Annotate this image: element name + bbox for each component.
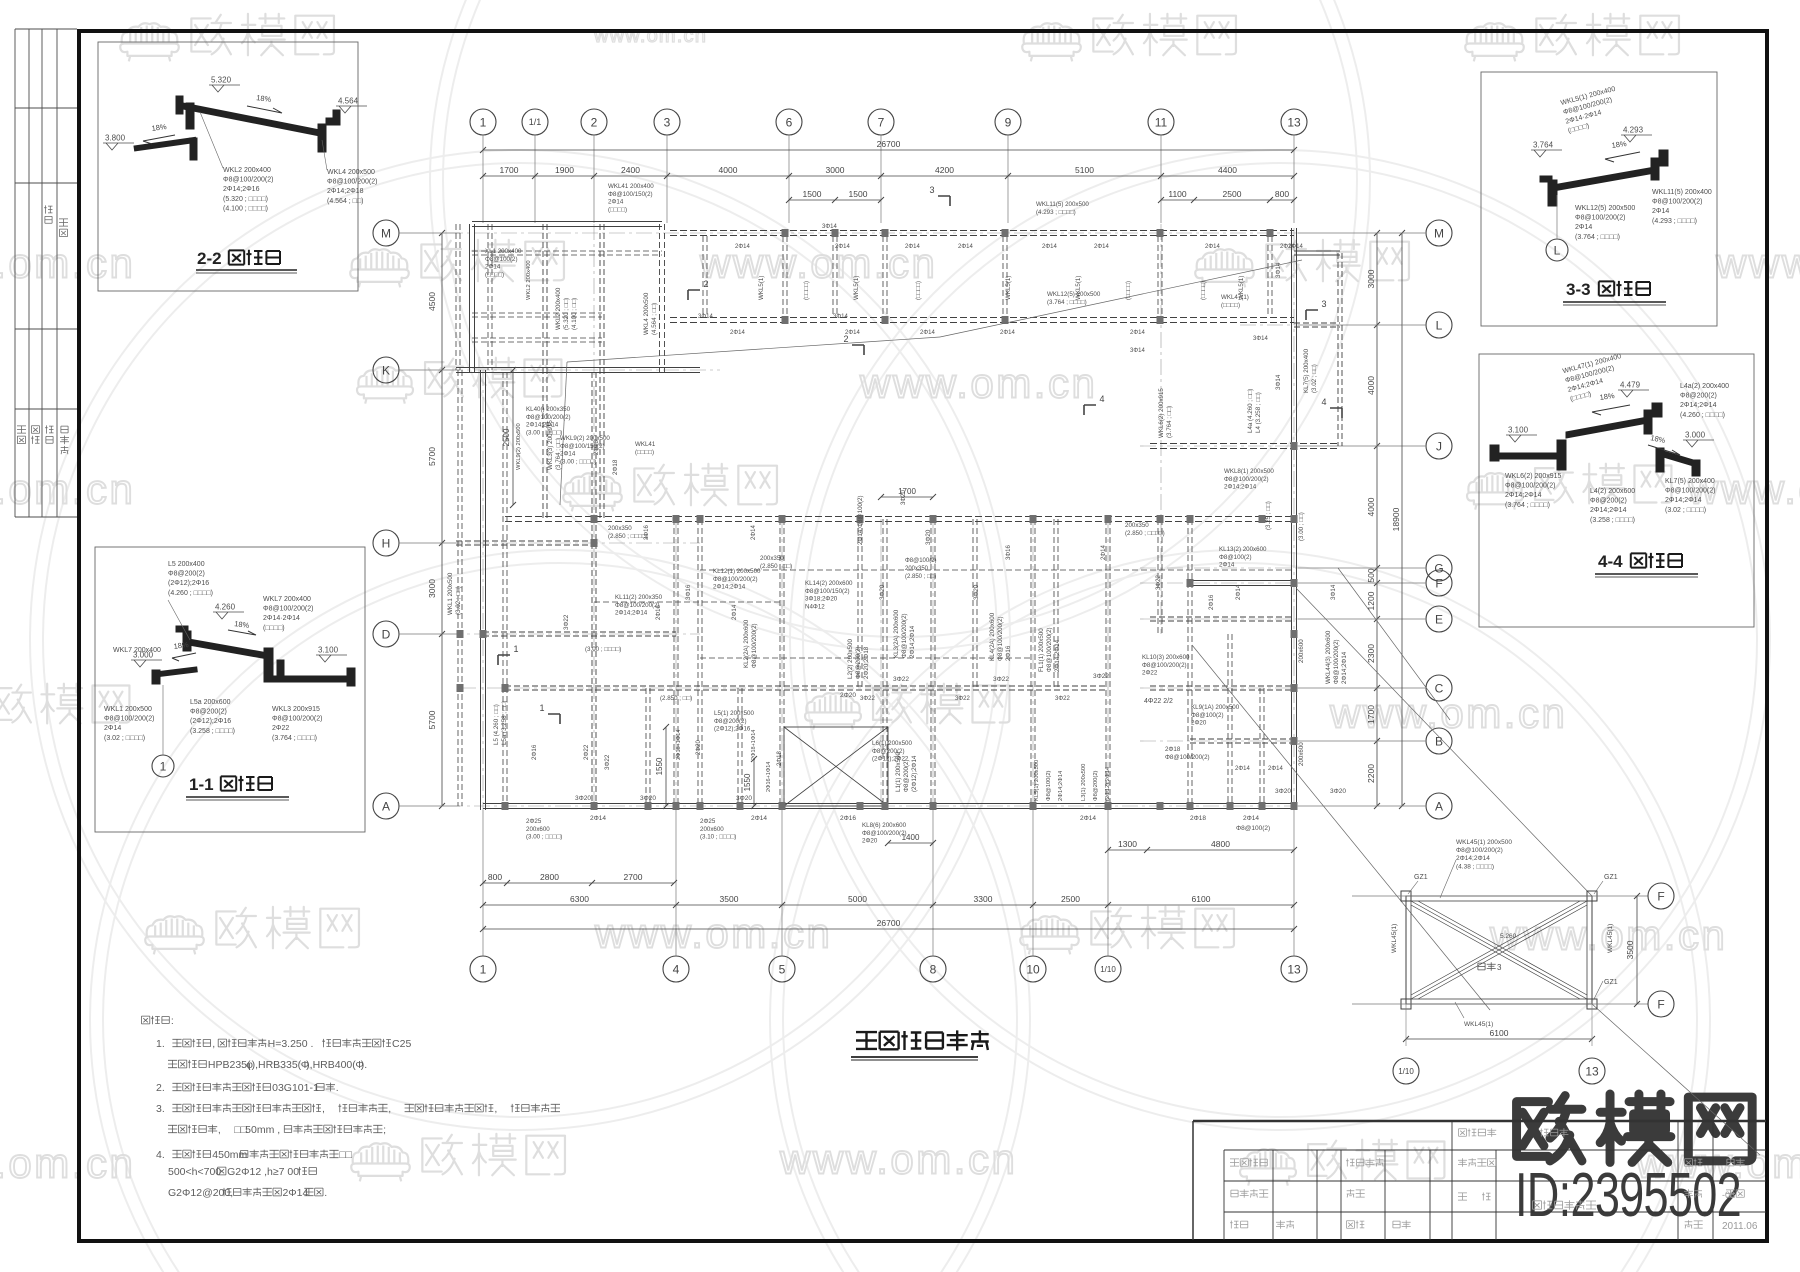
svg-text:WKL45(1): WKL45(1) xyxy=(1391,924,1398,953)
section detail 1-1 box xyxy=(95,547,365,832)
svg-text:(□□□□): (□□□□) xyxy=(635,449,654,456)
svg-text:WKL2 200x400: WKL2 200x400 xyxy=(555,287,562,330)
svg-text:200x600: 200x600 xyxy=(1298,639,1305,663)
svg-text:2Φ14;2Φ14: 2Φ14;2Φ14 xyxy=(1341,651,1348,684)
svg-text:1-1: 1-1 xyxy=(189,775,214,794)
top grid circles xyxy=(470,109,496,135)
svg-text:KL11(2) 200x350: KL11(2) 200x350 xyxy=(615,594,663,601)
svg-text:Φ8@200(2): Φ8@200(2) xyxy=(714,718,747,725)
svg-text:L6(1) 200x500: L6(1) 200x500 xyxy=(872,740,912,747)
svg-text:KL2(2A) 200x600: KL2(2A) 200x600 xyxy=(743,619,750,668)
svg-text:www.om.cn: www.om.cn xyxy=(0,466,135,513)
svg-text:(5.320 ; □□□□): (5.320 ; □□□□) xyxy=(223,196,268,203)
svg-text:□□: □□ xyxy=(339,1149,352,1161)
svg-text:Φ8@100/150(2): Φ8@100/150(2) xyxy=(608,191,653,198)
svg-text:WKL44(3) 200x600: WKL44(3) 200x600 xyxy=(1325,630,1332,684)
svg-text:L5 200x400: L5 200x400 xyxy=(168,561,205,568)
strip room labels WKL5(1) xyxy=(758,276,765,300)
svg-text:(2Φ12);2Φ14: (2Φ12);2Φ14 xyxy=(1105,766,1111,801)
annotation labels right outside xyxy=(1303,348,1318,393)
svg-text:(3.02 ; □□): (3.02 ; □□) xyxy=(455,586,462,615)
svg-text:(5.320 ; □□): (5.320 ; □□) xyxy=(563,298,570,330)
svg-text:4400: 4400 xyxy=(1218,165,1237,175)
svg-text:(2.850 ; □□□□): (2.850 ; □□□□) xyxy=(608,533,648,540)
svg-text:Φ8@100/200(2): Φ8@100/200(2) xyxy=(1505,483,1555,490)
svg-text:3Φ20: 3Φ20 xyxy=(736,795,752,802)
svg-text:3Φ22: 3Φ22 xyxy=(860,696,875,702)
svg-text:1100: 1100 xyxy=(1168,189,1187,199)
left title strip table xyxy=(15,29,77,517)
svg-text:(3.00 ; □□□□): (3.00 ; □□□□) xyxy=(585,646,621,653)
beam: west outer wall xyxy=(457,370,459,806)
svg-text:3Φ22: 3Φ22 xyxy=(563,614,570,630)
svg-text:Φ8@200(2): Φ8@200(2) xyxy=(190,709,227,716)
top dimension 26700 xyxy=(483,149,1294,151)
svg-text:Φ8@100/200(2): Φ8@100/200(2) xyxy=(1575,215,1625,222)
svg-text:H: H xyxy=(382,536,391,550)
svg-text:6300: 6300 xyxy=(570,894,589,904)
svg-text:L4(2) 200x600: L4(2) 200x600 xyxy=(1590,488,1635,495)
svg-text:WKL5(1): WKL5(1) xyxy=(1238,276,1245,300)
svg-text:Φ8@100(2): Φ8@100(2) xyxy=(1219,554,1252,561)
svg-text:A: A xyxy=(382,799,390,813)
svg-text:2Φ14: 2Φ14 xyxy=(845,330,860,336)
beam: mid horizontals xyxy=(594,601,782,603)
svg-text:200x600: 200x600 xyxy=(1298,742,1305,766)
svg-text:2Φ20: 2Φ20 xyxy=(840,692,856,699)
svg-text:(4.100 ; □□□□): (4.100 ; □□□□) xyxy=(223,205,268,212)
svg-text:3Φ20: 3Φ20 xyxy=(640,795,656,802)
svg-text:2200: 2200 xyxy=(1366,764,1376,783)
1-1 elevation markers xyxy=(213,612,244,619)
svg-text:2Φ18: 2Φ18 xyxy=(594,440,600,455)
svg-text:2Φ16+1Φ14: 2Φ16+1Φ14 xyxy=(766,762,772,792)
svg-text:4.293: 4.293 xyxy=(1623,126,1644,135)
svg-text:200x350: 200x350 xyxy=(760,555,784,562)
svg-text:(□□□□): (□□□□) xyxy=(915,281,922,300)
bottom sub dimensions 800 2800 2700 xyxy=(483,882,674,884)
svg-text:Φ8@100/200(2): Φ8@100/200(2) xyxy=(615,602,660,609)
svg-text:200x600: 200x600 xyxy=(700,826,724,833)
svg-text:1: 1 xyxy=(480,115,487,129)
svg-text:2Φ14: 2Φ14 xyxy=(608,199,624,206)
svg-text:M: M xyxy=(1434,226,1444,240)
svg-text:2Φ14: 2Φ14 xyxy=(1000,330,1015,336)
3-3 annotations xyxy=(1560,86,1624,135)
svg-text:L4a(2) 200x400: L4a(2) 200x400 xyxy=(1680,383,1729,390)
svg-text:3.764: 3.764 xyxy=(1533,141,1554,150)
svg-text:2: 2 xyxy=(591,115,598,129)
svg-text:4200: 4200 xyxy=(935,165,954,175)
svg-text:2Φ20: 2Φ20 xyxy=(696,740,702,755)
svg-text:GZ1: GZ1 xyxy=(1414,874,1428,881)
svg-text:9: 9 xyxy=(1005,115,1012,129)
svg-text:1300: 1300 xyxy=(1118,839,1137,849)
beam: B line right rooms xyxy=(1190,738,1294,740)
svg-text:4000: 4000 xyxy=(719,165,738,175)
svg-text:2Φ14: 2Φ14 xyxy=(590,815,606,822)
svg-text:4Φ22 2/2: 4Φ22 2/2 xyxy=(1144,698,1173,705)
svg-text:3300: 3300 xyxy=(974,894,993,904)
svg-text:(3.764 ; □□): (3.764 ; □□) xyxy=(1166,406,1173,438)
top sub dimensions 1100 2500 800 xyxy=(1161,199,1294,201)
svg-text:1/1: 1/1 xyxy=(529,117,542,127)
svg-text:Φ8@100(2): Φ8@100(2) xyxy=(1191,712,1224,719)
svg-text:200x350: 200x350 xyxy=(1125,522,1149,529)
beam: bottom edge A xyxy=(483,803,1294,805)
svg-text:www.om.cn: www.om.cn xyxy=(1715,240,1800,287)
svg-text:GZ1: GZ1 xyxy=(1604,874,1618,881)
svg-text:1500: 1500 xyxy=(803,189,822,199)
svg-text:2Φ14: 2Φ14 xyxy=(1288,244,1303,250)
svg-text:Φ8@100(2): Φ8@100(2) xyxy=(1046,770,1052,801)
svg-text:WKL2 200x400: WKL2 200x400 xyxy=(223,167,271,174)
svg-text:3Φ16: 3Φ16 xyxy=(685,584,692,600)
svg-text:WKL6(2) 200x915: WKL6(2) 200x915 xyxy=(1505,473,1562,480)
beam: inner left vertical xyxy=(502,372,504,806)
svg-text:(2.850 ; □□□□): (2.850 ; □□□□) xyxy=(1125,530,1165,537)
bottom dimension 26700 xyxy=(483,928,1294,930)
svg-text:4.564: 4.564 xyxy=(338,97,359,106)
beam: E line right block xyxy=(1150,616,1294,618)
3-3 slope arrow xyxy=(1605,152,1640,162)
svg-text:3.000: 3.000 xyxy=(1685,431,1706,440)
svg-text:(3.764 ; □□): (3.764 ; □□) xyxy=(555,438,562,470)
beam: wing west wall xyxy=(455,224,457,370)
beam: wing divider WKL2 xyxy=(542,224,544,519)
svg-text:(4.260 ; □□□□): (4.260 ; □□□□) xyxy=(1680,412,1725,419)
left grid circles xyxy=(373,220,399,246)
svg-text:13: 13 xyxy=(1287,115,1301,129)
svg-text:(3.25 ; □□): (3.25 ; □□) xyxy=(1265,501,1272,530)
svg-text:Φ8@100/200(2): Φ8@100/200(2) xyxy=(1652,199,1702,206)
title block table xyxy=(1193,1121,1766,1240)
svg-text:Φ8@100(2): Φ8@100(2) xyxy=(485,256,518,263)
roof plan F lines + circles xyxy=(1352,895,1648,897)
svg-text:Φ8@200(2): Φ8@200(2) xyxy=(1680,393,1717,400)
svg-text:(4.564 ; □□): (4.564 ; □□) xyxy=(651,303,658,335)
beam: top-left wing outline xyxy=(472,221,662,223)
3-3 beams xyxy=(1540,150,1668,206)
svg-text:L5a (3.258 ; □□): L5a (3.258 ; □□) xyxy=(501,701,508,745)
svg-text:4: 4 xyxy=(1321,397,1326,407)
svg-text:KL12(1) 200x500: KL12(1) 200x500 xyxy=(713,568,761,575)
svg-text:1/10: 1/10 xyxy=(1100,965,1116,974)
svg-text:1550: 1550 xyxy=(743,773,752,791)
svg-text:(3.02 ; □□□□): (3.02 ; □□□□) xyxy=(104,735,145,742)
svg-text:),HRB400(: ),HRB400( xyxy=(306,1059,356,1071)
svg-text:200x600: 200x600 xyxy=(526,826,550,833)
svg-text:2800: 2800 xyxy=(540,872,559,882)
roof plan bottom circles xyxy=(1393,1058,1419,1084)
svg-text:6100: 6100 xyxy=(1490,1028,1509,1038)
svg-text:Φ8@100/200(2): Φ8@100/200(2) xyxy=(104,716,154,723)
svg-text:L5a 200x600: L5a 200x600 xyxy=(190,699,231,706)
svg-text:2Φ14: 2Φ14 xyxy=(282,1187,308,1199)
svg-text:2: 2 xyxy=(703,279,708,289)
svg-text:KL9(1A) 200x500: KL9(1A) 200x500 xyxy=(1191,704,1240,711)
svg-text:(3.10 ; □□□□): (3.10 ; □□□□) xyxy=(700,834,736,841)
svg-text:Φ8@100(2): Φ8@100(2) xyxy=(905,558,937,564)
svg-text:2Φ14: 2Φ14 xyxy=(958,244,973,250)
svg-text:).: ). xyxy=(361,1059,367,1071)
svg-text:Φ8@200(2): Φ8@200(2) xyxy=(855,646,862,679)
svg-text:(3.02 ; □□□□): (3.02 ; □□□□) xyxy=(1665,507,1706,514)
svg-text:Φ8@100/200(2): Φ8@100/200(2) xyxy=(751,623,758,668)
svg-text:H=3.250 .: H=3.250 . xyxy=(268,1038,314,1050)
svg-text:3Φ14: 3Φ14 xyxy=(1253,336,1268,342)
svg-text:2Φ20;2Φ18: 2Φ20;2Φ18 xyxy=(863,646,870,679)
svg-text:5: 5 xyxy=(779,962,786,976)
svg-text:(3.00 ; □□□□): (3.00 ; □□□□) xyxy=(526,834,562,841)
svg-text:(2.850 ; □□): (2.850 ; □□) xyxy=(760,563,792,570)
top dimension segments xyxy=(483,175,1294,177)
svg-text:11: 11 xyxy=(1155,115,1168,129)
svg-text:3Φ16: 3Φ16 xyxy=(1006,545,1012,560)
beam: H line left xyxy=(456,540,594,542)
svg-text:(4.260 ; □□□□): (4.260 ; □□□□) xyxy=(168,590,213,597)
svg-text:(□□□□): (□□□□) xyxy=(803,281,810,300)
1-1 beams xyxy=(152,626,355,686)
svg-text:Φ8@100/200(2): Φ8@100/200(2) xyxy=(263,606,313,613)
beam: wing inner lines xyxy=(472,250,662,252)
svg-text:,: , xyxy=(494,1103,497,1115)
svg-text:2Φ16: 2Φ16 xyxy=(840,815,856,822)
bottom sub dimensions 1300 4800 xyxy=(1108,849,1294,851)
svg-text:2Φ14: 2Φ14 xyxy=(1235,584,1242,600)
svg-text:(□□□□): (□□□□) xyxy=(608,206,627,213)
svg-text:Φ8@100/200(2): Φ8@100/200(2) xyxy=(1165,754,1210,761)
svg-text:HPB235(: HPB235( xyxy=(208,1059,251,1071)
svg-text:26700: 26700 xyxy=(877,139,901,149)
svg-text:,: , xyxy=(322,1103,325,1115)
svg-text:13: 13 xyxy=(1287,962,1301,976)
svg-text:8: 8 xyxy=(930,962,937,976)
svg-text:(3.00 ; □□): (3.00 ; □□) xyxy=(1298,512,1305,541)
svg-text:2Φ14;2Φ14: 2Φ14;2Φ14 xyxy=(1058,770,1064,801)
svg-text:3Φ22: 3Φ22 xyxy=(1156,575,1162,590)
svg-text:2Φ14;2Φ18: 2Φ14;2Φ18 xyxy=(327,188,364,195)
svg-text:800: 800 xyxy=(1275,189,1289,199)
svg-text:500<h<700: 500<h<700 xyxy=(168,1166,221,1178)
left vertical dimensions xyxy=(441,233,443,806)
beam: D line left rooms xyxy=(483,631,676,633)
svg-text:13: 13 xyxy=(1585,1064,1599,1078)
svg-text:3Φ22: 3Φ22 xyxy=(955,696,970,702)
svg-text:1700: 1700 xyxy=(898,487,916,496)
svg-text:18900: 18900 xyxy=(1391,507,1401,531)
svg-text:J: J xyxy=(1436,439,1442,453)
svg-text:3Φ14: 3Φ14 xyxy=(1275,262,1282,278)
svg-text:2Φ14;2Φ14: 2Φ14;2Φ14 xyxy=(615,610,648,617)
svg-text:(3.00 ; □□□□): (3.00 ; □□□□) xyxy=(560,458,596,465)
svg-text:5700: 5700 xyxy=(427,710,437,729)
svg-text:www.om.cn: www.om.cn xyxy=(593,25,707,47)
svg-text:2Φ14: 2Φ14 xyxy=(1205,244,1220,250)
svg-text:5100: 5100 xyxy=(1075,165,1094,175)
beam: right edge grid13 xyxy=(1291,228,1293,810)
svg-text:6100: 6100 xyxy=(1192,894,1211,904)
svg-text:KL40() 200x350: KL40() 200x350 xyxy=(526,406,571,413)
beam: top strip band xyxy=(670,230,1294,232)
svg-text:3Φ20: 3Φ20 xyxy=(575,795,591,802)
svg-text:10: 10 xyxy=(1026,962,1040,976)
svg-text:WKL11(5) 200x400: WKL11(5) 200x400 xyxy=(1652,189,1712,196)
svg-text:WKL4 200x500: WKL4 200x500 xyxy=(327,169,375,176)
svg-text:1/10: 1/10 xyxy=(1398,1067,1414,1076)
svg-text:KL5(1) 200x500: KL5(1) 200x500 xyxy=(1034,760,1040,801)
svg-text:3Φ14: 3Φ14 xyxy=(822,224,837,230)
svg-text:(4.100 ; □□): (4.100 ; □□) xyxy=(571,298,578,330)
left strip vertical labels xyxy=(44,205,53,223)
svg-text:1700: 1700 xyxy=(1366,705,1376,724)
svg-text:WKL5(1): WKL5(1) xyxy=(1005,276,1012,300)
4-4 beams xyxy=(1490,403,1700,476)
svg-text:F: F xyxy=(1657,997,1664,1011)
svg-text:KL14(2) 200x600: KL14(2) 200x600 xyxy=(805,580,853,587)
beam: F line right block xyxy=(1190,580,1294,582)
svg-text:2Φ14;2Φ14: 2Φ14;2Φ14 xyxy=(909,625,916,658)
stairwell X room xyxy=(784,727,888,806)
svg-text:Φ8@100/150(2): Φ8@100/150(2) xyxy=(805,588,850,595)
svg-text:KL10(3) 200x600: KL10(3) 200x600 xyxy=(1142,654,1190,661)
svg-text:1400: 1400 xyxy=(902,833,920,842)
svg-text:(2.850 ; □□): (2.850 ; □□) xyxy=(660,695,692,702)
3-3 elevation markers xyxy=(1531,150,1562,157)
svg-text:4500: 4500 xyxy=(427,292,437,311)
beam: top right stub L row xyxy=(1294,250,1340,252)
svg-text:WKL1 200x500: WKL1 200x500 xyxy=(447,572,454,615)
svg-text:3.800: 3.800 xyxy=(105,134,126,143)
svg-text:3000: 3000 xyxy=(1366,269,1376,288)
leader diagonals xyxy=(567,337,940,362)
svg-text:.: . xyxy=(336,1082,339,1094)
svg-text:2Φ14;2Φ14: 2Φ14;2Φ14 xyxy=(1505,492,1542,499)
svg-text:WKL3 200x915: WKL3 200x915 xyxy=(272,706,320,713)
svg-text:F: F xyxy=(1657,889,1664,903)
right vertical dimensions xyxy=(1376,233,1378,806)
svg-text:2.: 2. xyxy=(156,1082,165,1094)
svg-text:4.260: 4.260 xyxy=(215,603,236,612)
svg-text:2Φ18: 2Φ18 xyxy=(777,751,783,766)
svg-text:4800: 4800 xyxy=(1211,839,1230,849)
svg-text:WKL3(3) 200x915: WKL3(3) 200x915 xyxy=(547,420,554,470)
svg-text:2Φ18+1Φ14: 2Φ18+1Φ14 xyxy=(751,730,757,760)
svg-text:2400: 2400 xyxy=(621,165,640,175)
right overall dimension 18900 xyxy=(1401,233,1403,806)
svg-text:(3.258 ; □□□□): (3.258 ; □□□□) xyxy=(1590,517,1635,524)
svg-text:1: 1 xyxy=(160,759,167,773)
svg-text:1900: 1900 xyxy=(555,165,574,175)
svg-text:WKL11(5) 200x500: WKL11(5) 200x500 xyxy=(1036,201,1089,208)
svg-text:2Φ14: 2Φ14 xyxy=(1575,224,1592,231)
svg-text:2Φ18: 2Φ18 xyxy=(612,459,619,475)
svg-text:-08: -08 xyxy=(1722,1190,1735,1200)
svg-text:Φ8@200(2): Φ8@200(2) xyxy=(1590,498,1627,505)
svg-text:Φ8@100/200(2): Φ8@100/200(2) xyxy=(713,576,758,583)
svg-text:XL1 200x400: XL1 200x400 xyxy=(485,248,522,255)
svg-text:800: 800 xyxy=(488,872,502,882)
svg-text:2-2: 2-2 xyxy=(197,249,222,268)
svg-text:3Φ18;2Φ20: 3Φ18;2Φ20 xyxy=(805,596,838,603)
beam: K line wing bottom xyxy=(456,367,700,369)
svg-text:2Φ14: 2Φ14 xyxy=(1080,815,1096,822)
svg-text:Φ8@100/200(2): Φ8@100/200(2) xyxy=(1665,488,1715,495)
main title 二层梁配筋图 xyxy=(856,1030,989,1050)
svg-text:2Φ18: 2Φ18 xyxy=(1190,815,1206,822)
svg-text:3Φ22: 3Φ22 xyxy=(893,676,909,683)
svg-text:KL7(5) 200x400: KL7(5) 200x400 xyxy=(1303,348,1310,393)
svg-text:2Φ22: 2Φ22 xyxy=(583,744,590,760)
svg-text:F: F xyxy=(1435,576,1442,590)
svg-text:3Φ14: 3Φ14 xyxy=(698,314,713,320)
4-4 elevation markers xyxy=(1506,435,1537,442)
svg-text:3500: 3500 xyxy=(720,894,739,904)
1-1 grid circle 1 xyxy=(152,755,174,777)
svg-text:C25: C25 xyxy=(392,1038,411,1050)
svg-text:2Φ18+1Φ14: 2Φ18+1Φ14 xyxy=(676,730,682,760)
svg-text:WKL41: WKL41 xyxy=(635,441,656,448)
svg-text:(2.850 ; □□): (2.850 ; □□) xyxy=(905,574,936,580)
svg-text:N4Φ12: N4Φ12 xyxy=(805,603,825,610)
svg-text:3: 3 xyxy=(929,185,934,195)
svg-text:A: A xyxy=(1435,799,1443,813)
2-2 slope arrows xyxy=(247,106,282,113)
svg-text:Φ8@100/200(2): Φ8@100/200(2) xyxy=(1046,627,1053,672)
svg-text:4000: 4000 xyxy=(1366,497,1376,516)
svg-text:2Φ14: 2Φ14 xyxy=(1235,766,1250,772)
svg-text:3Φ20: 3Φ20 xyxy=(1275,788,1291,795)
svg-text:KL8(6) 200x600: KL8(6) 200x600 xyxy=(862,822,907,829)
svg-text:Φ8@100/200(2): Φ8@100/200(2) xyxy=(327,179,377,186)
svg-text:2Φ14;2Φ14: 2Φ14;2Φ14 xyxy=(1224,484,1257,491)
svg-text:),HRB335(: ),HRB335( xyxy=(252,1059,302,1071)
svg-text:3Φ22: 3Φ22 xyxy=(604,754,611,770)
svg-text:2Φ14: 2Φ14 xyxy=(1094,244,1109,250)
beam: left edge grid1 xyxy=(480,370,482,810)
svg-text:1: 1 xyxy=(480,962,487,976)
svg-text:3.100: 3.100 xyxy=(318,646,339,655)
svg-text:(4.38 ; □□□□): (4.38 ; □□□□) xyxy=(1456,863,1494,870)
svg-text:5.260: 5.260 xyxy=(1500,933,1517,940)
svg-text:D: D xyxy=(382,627,391,641)
svg-text:WKL7 200x400: WKL7 200x400 xyxy=(263,596,311,603)
svg-text:4: 4 xyxy=(673,962,680,976)
svg-text:2Φ14: 2Φ14 xyxy=(751,525,757,540)
svg-text:3Φ22: 3Φ22 xyxy=(993,676,1009,683)
svg-text:C: C xyxy=(1435,681,1444,695)
svg-text:L4 (3.258 ; □□): L4 (3.258 ; □□) xyxy=(1255,392,1262,433)
svg-text:3000: 3000 xyxy=(427,579,437,598)
svg-text:2Φ14: 2Φ14 xyxy=(905,244,920,250)
svg-text:WKL5(1): WKL5(1) xyxy=(758,276,765,300)
2-2 beams xyxy=(134,96,340,160)
svg-text:2Φ14: 2Φ14 xyxy=(1268,766,1283,772)
svg-text:3Φ22: 3Φ22 xyxy=(1055,696,1070,702)
svg-text:1700: 1700 xyxy=(500,165,519,175)
svg-text:L: L xyxy=(1554,243,1561,257)
beam: grid2 vertical through left block xyxy=(591,372,593,806)
svg-text:2Φ14;2Φ14: 2Φ14;2Φ14 xyxy=(1665,497,1702,504)
svg-text:2Φ14;2Φ14: 2Φ14;2Φ14 xyxy=(1680,402,1717,409)
svg-text:2Φ14;2Φ14: 2Φ14;2Φ14 xyxy=(1054,639,1061,672)
svg-text:2Φ14;2Φ14: 2Φ14;2Φ14 xyxy=(1456,855,1490,862)
svg-text:Φ8@100/200(2): Φ8@100/200(2) xyxy=(1456,847,1503,854)
svg-text:2Φ22: 2Φ22 xyxy=(1142,670,1158,677)
svg-text:L3(1) 200x500: L3(1) 200x500 xyxy=(1081,764,1087,801)
svg-text:5700: 5700 xyxy=(427,447,437,466)
svg-text:(2Φ12);2Φ16: (2Φ12);2Φ16 xyxy=(714,726,751,733)
